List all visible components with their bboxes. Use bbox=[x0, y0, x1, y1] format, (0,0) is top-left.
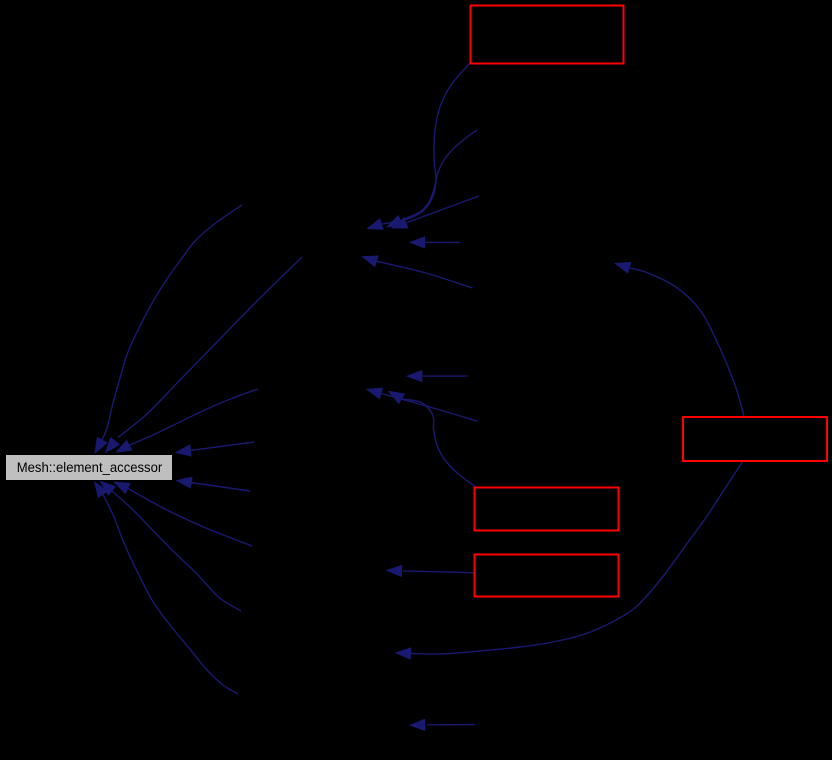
svg-text:Mesh::element_accessor: Mesh::element_accessor bbox=[17, 460, 163, 475]
